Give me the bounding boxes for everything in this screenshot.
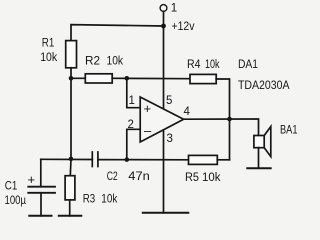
svg-text:R1: R1 bbox=[42, 38, 55, 50]
svg-text:C1: C1 bbox=[5, 181, 17, 193]
svg-text:10k: 10k bbox=[202, 172, 221, 184]
svg-text:R2: R2 bbox=[85, 56, 100, 68]
wire bbox=[71, 25, 164, 41]
capacitor C1 plates bbox=[28, 186, 55, 188]
wire bbox=[71, 77, 85, 79]
wire bbox=[163, 11, 165, 108]
svg-text:R5: R5 bbox=[185, 172, 199, 184]
wire bbox=[70, 68, 72, 79]
wire bbox=[112, 77, 190, 79]
svg-text:100µ: 100µ bbox=[5, 195, 27, 207]
resistor R4 bbox=[190, 74, 216, 83]
svg-text:2: 2 bbox=[128, 119, 134, 131]
wire bbox=[69, 200, 71, 216]
svg-text:R4: R4 bbox=[187, 59, 201, 71]
svg-text:1: 1 bbox=[129, 95, 135, 107]
capacitor C2 plates bbox=[91, 152, 93, 167]
wire bbox=[40, 193, 42, 216]
svg-text:10k: 10k bbox=[107, 56, 124, 68]
wire bbox=[98, 159, 189, 161]
svg-text:TDA2030A: TDA2030A bbox=[238, 80, 290, 92]
op-amp U1 triangle bbox=[140, 97, 183, 142]
node B junction bbox=[69, 157, 74, 162]
resistor R2 bbox=[85, 74, 112, 83]
wire bbox=[69, 159, 72, 176]
wire bbox=[258, 148, 260, 169]
svg-text:4: 4 bbox=[184, 106, 191, 118]
speaker BA1 bbox=[254, 136, 264, 148]
wire pin 1 bbox=[127, 78, 140, 107]
svg-text:C2: C2 bbox=[107, 171, 118, 183]
wire bbox=[70, 78, 72, 159]
node +12v junction bbox=[161, 24, 166, 29]
svg-text:47n: 47n bbox=[128, 171, 150, 183]
wire bbox=[217, 159, 229, 161]
svg-text:1: 1 bbox=[171, 3, 177, 15]
ground bar R3 bbox=[59, 215, 82, 217]
node output junction bbox=[227, 117, 232, 122]
wire pin 3 ground lead bbox=[163, 130, 165, 213]
svg-text:+: + bbox=[28, 172, 36, 187]
node pin1 junction bbox=[125, 76, 130, 81]
ground bar BA1 bbox=[247, 167, 270, 169]
svg-text:R3: R3 bbox=[83, 194, 96, 206]
svg-text:+12v: +12v bbox=[172, 21, 195, 33]
svg-text:10k: 10k bbox=[101, 194, 117, 206]
svg-text:+: + bbox=[144, 101, 152, 116]
node C2 junction bbox=[125, 157, 130, 162]
wire pin 2 bbox=[127, 129, 140, 159]
svg-text:BA1: BA1 bbox=[280, 125, 298, 137]
ground bar C1 bbox=[29, 215, 51, 217]
resistor R3 bbox=[65, 176, 75, 200]
ground bar pin3 bbox=[143, 212, 189, 214]
svg-text:3: 3 bbox=[167, 133, 173, 145]
wire C1 lead bbox=[40, 159, 42, 186]
resistor R1 bbox=[66, 41, 77, 68]
resistor R5 bbox=[189, 155, 218, 164]
svg-text:–: – bbox=[144, 123, 152, 138]
wire bbox=[216, 79, 229, 160]
terminal 1 bbox=[160, 5, 167, 12]
node A junction bbox=[69, 76, 74, 81]
svg-text:5: 5 bbox=[166, 95, 172, 107]
svg-text:10k: 10k bbox=[40, 52, 57, 64]
wire bbox=[41, 158, 93, 160]
svg-text:10k: 10k bbox=[205, 59, 220, 71]
svg-text:DA1: DA1 bbox=[238, 59, 258, 71]
wire output pin 4 bbox=[184, 119, 259, 136]
